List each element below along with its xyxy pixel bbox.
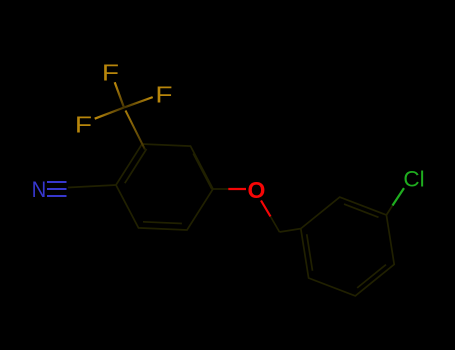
nitrile triple bond C#N — [47, 182, 67, 196]
double bond inner lines ring 2 — [344, 204, 379, 217]
ether bond ring1 to O (red half) — [228, 188, 246, 190]
trifluoromethyl C-F bond (right F) — [124, 97, 153, 107]
bond ring2 to Cl (dark half) — [386, 206, 392, 216]
double bond inner lines ring 1 — [125, 149, 147, 183]
bond O to CH2 (red half) — [261, 201, 271, 217]
svg-text:Cl: Cl — [403, 167, 424, 192]
svg-text:F: F — [155, 83, 172, 108]
wire: ring to CF3 carbon — [126, 111, 146, 150]
svg-text:O: O — [248, 177, 266, 203]
benzene ring 2 (right, chlorophenyl ring) — [301, 197, 394, 296]
wire: nitrile C to ring bond — [68, 185, 116, 188]
svg-text:F: F — [75, 113, 92, 138]
bond ring2 to Cl (green half) — [393, 188, 405, 205]
bond O to CH2 (dark half) — [271, 217, 280, 233]
svg-text:N: N — [32, 178, 47, 202]
trifluoromethyl C-F bond (top F) — [115, 82, 124, 107]
trifluoromethyl C-F bond (left F) — [95, 108, 124, 119]
ether bond ring1 to O (dark half) — [213, 188, 228, 190]
svg-text:F: F — [102, 61, 119, 86]
wire: CH2 to ring 2 — [280, 229, 301, 232]
benzene ring 1 (left, benzonitrile ring) — [116, 144, 213, 230]
